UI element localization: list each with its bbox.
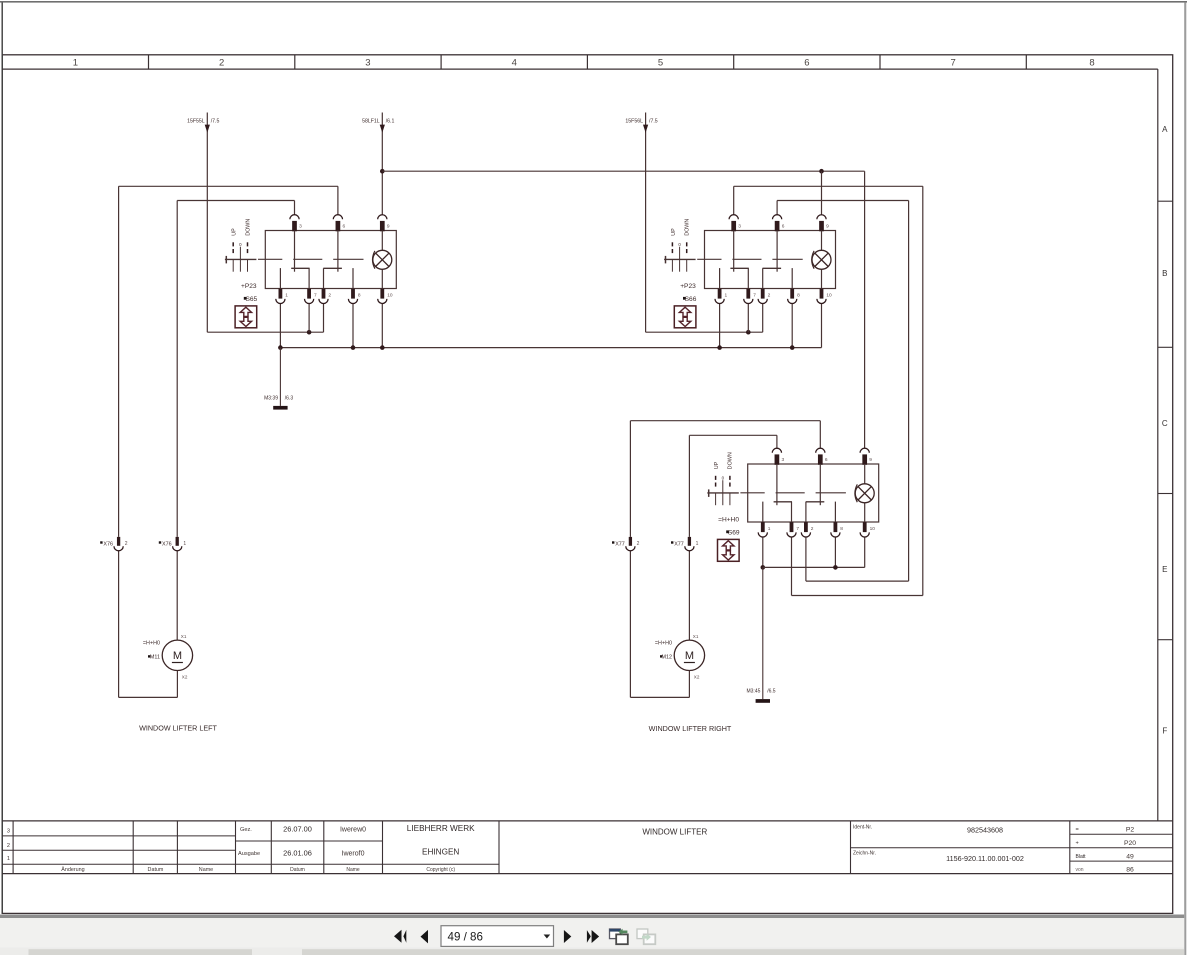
svg-text:9: 9: [826, 224, 829, 230]
wire S66 pin10 drop: [821, 304, 823, 348]
wire X77:2 vertical: [629, 421, 631, 537]
svg-text:X1: X1: [693, 634, 699, 639]
svg-text:Iwerew0: Iwerew0: [340, 827, 366, 834]
wire S65 pin10 drop: [381, 304, 383, 348]
switch S66 pin 9: [817, 215, 826, 232]
next view button disabled: [637, 929, 655, 944]
svg-text:7: 7: [951, 58, 956, 69]
switch S69 actuator lever: [707, 480, 739, 505]
junction bus at S65 pin8: [351, 345, 356, 350]
viewer top border: [0, 1, 1187, 3]
title block divider ident col: [1069, 821, 1071, 874]
svg-text:+P23: +P23: [680, 283, 696, 290]
page number combo box: [441, 926, 554, 947]
svg-text:1: 1: [768, 526, 771, 532]
wire S69 pin6 to X77:2 horizontal: [630, 420, 820, 422]
wire S69 pin7 drop: [791, 537, 793, 595]
wire S66 pin2 drop: [762, 304, 764, 333]
wire S66 pin3 horizontal to x923: [734, 185, 923, 187]
switch S66 pin 2: [758, 289, 767, 304]
wire S65 pin3 to X76:1 horizontal: [177, 200, 294, 202]
title block divider title col: [850, 821, 852, 874]
wire S69 pin2 horizontal: [806, 580, 909, 582]
wire X76:2 vertical: [118, 186, 120, 537]
row divider: [1158, 493, 1173, 495]
wire X76:1 vertical: [176, 201, 178, 537]
wire S65 pin3 stub: [294, 201, 296, 215]
connector X77:2 label: [612, 541, 640, 548]
svg-text:EHINGEN: EHINGEN: [422, 848, 459, 857]
wire X77:1 vertical: [688, 435, 690, 537]
switch S69 coupling dashes: [740, 492, 846, 494]
wire X76:1 to motor M11 X1: [176, 551, 178, 640]
svg-text:Zeichn-Nr.: Zeichn-Nr.: [853, 851, 876, 857]
svg-text:von: von: [1076, 867, 1084, 873]
wire 15F55L feed vertical: [206, 113, 208, 333]
wire S69 bottom bus: [763, 566, 865, 568]
wire S65 pin8 drop: [352, 304, 354, 348]
title block divider Name col: [235, 821, 237, 874]
switch S65 designator S65: [244, 296, 258, 303]
switch S65 pin 8: [348, 289, 357, 304]
title block row line ident/zeichn: [851, 847, 1070, 849]
wire S69 pin7 horizontal: [792, 595, 923, 597]
switch S66 position dashes: [672, 242, 686, 253]
svg-text:Iwerof0: Iwerof0: [342, 851, 365, 858]
row divider: [1158, 639, 1173, 641]
svg-text:S69: S69: [728, 530, 740, 537]
drawing frame left page edge: [1, 2, 3, 913]
junction S69 pin1: [761, 565, 766, 570]
wire S69 pin6 stub: [819, 421, 821, 449]
switch S69 contact pin3: [774, 464, 792, 522]
svg-text:Datum: Datum: [148, 867, 164, 873]
svg-text:49 / 86: 49 / 86: [448, 931, 483, 944]
title block divider date col: [323, 821, 325, 874]
svg-text:1: 1: [285, 292, 288, 298]
switch S66 contact pin6: [763, 231, 782, 289]
svg-text:6: 6: [825, 457, 828, 463]
svg-text:8: 8: [797, 292, 800, 298]
switch S65 pin8 stub: [352, 268, 354, 288]
wire S66 pin9 drop from lamp bus: [821, 171, 823, 215]
window lifter icon S69: [718, 539, 740, 561]
svg-text:UP: UP: [671, 228, 677, 236]
wire S65 pin7 drop: [308, 304, 310, 333]
svg-text:DOWN: DOWN: [728, 452, 734, 469]
wire motor M12 X2: [688, 671, 690, 698]
svg-text:WINDOW LIFTER RIGHT: WINDOW LIFTER RIGHT: [649, 724, 732, 733]
wire X76:2 to motor M11 leg: [118, 551, 120, 698]
svg-text:UP: UP: [714, 461, 720, 469]
svg-text:A: A: [1162, 125, 1168, 134]
wire S69 pin3 to X77:1 horizontal: [689, 434, 777, 436]
svg-text:2: 2: [328, 292, 331, 298]
svg-text:=H+H0: =H+H0: [718, 517, 739, 524]
switch S69 body: [748, 464, 879, 522]
svg-text:P20: P20: [1124, 840, 1136, 847]
switch S66 actuator lever: [664, 247, 696, 272]
switch S69 pin 10: [860, 522, 869, 537]
first page button: [394, 930, 406, 943]
lamp in switch S69: [855, 464, 874, 522]
switch S66 pin8 stub: [791, 268, 793, 288]
wire S66 pin7 drop: [747, 304, 749, 333]
svg-text:2: 2: [125, 541, 128, 547]
title block right table rows: [1070, 833, 1173, 835]
supply 58LF1L arrow: [380, 125, 385, 133]
column divider 4|5: [586, 55, 588, 69]
svg-text:/6.1: /6.1: [386, 119, 395, 125]
switch S65 body: [265, 231, 396, 289]
svg-text:1: 1: [73, 58, 78, 69]
switch S65 contact pin6: [323, 231, 342, 289]
switch S65 position dashes: [233, 242, 247, 253]
title block divider name2 col: [382, 821, 384, 874]
switch S69 pin 3: [772, 448, 781, 465]
svg-text:Name: Name: [346, 867, 360, 873]
switch S66 pin 8: [788, 289, 797, 304]
switch S69 pin 7: [787, 522, 796, 537]
wire common bus y347: [280, 347, 821, 349]
svg-text:15F55L: 15F55L: [187, 119, 205, 125]
svg-text:86: 86: [1126, 866, 1134, 873]
wire S66 pin6 horizontal to x909: [777, 200, 909, 202]
wire 15F55L feed horizontal to pins 7+2: [207, 331, 323, 333]
wire S65 pin6 stub: [337, 186, 339, 214]
svg-text:6: 6: [804, 58, 809, 69]
junction bus at S65 pin1: [278, 345, 283, 350]
switch S69 pin 1: [758, 522, 767, 537]
title block divider Aenderung col: [132, 821, 134, 874]
switch S65 pin1 stub: [279, 268, 281, 288]
switch S66 designator S66: [683, 296, 697, 303]
switch S66 pin1 stub: [719, 268, 721, 288]
svg-text:9: 9: [869, 457, 872, 463]
svg-text:M: M: [685, 650, 694, 662]
wire S65 pin2 drop: [323, 304, 325, 333]
switch S66 pin 1: [715, 289, 724, 304]
switch S65 pin 10: [378, 289, 387, 304]
svg-text:F: F: [1162, 727, 1167, 736]
wire S65 pin6 to X76:2 horizontal: [119, 185, 338, 187]
wire S66 pin1 drop: [719, 304, 721, 348]
svg-text:15F56L: 15F56L: [625, 119, 643, 125]
previous page button: [421, 930, 429, 944]
svg-text:S65: S65: [245, 296, 257, 303]
svg-text:M12: M12: [662, 655, 673, 661]
wire motor M12 bottom horizontal: [630, 696, 689, 698]
svg-text:3: 3: [365, 58, 370, 69]
svg-text:2: 2: [7, 843, 10, 849]
column divider 5|6: [733, 55, 735, 69]
svg-text:X77: X77: [674, 542, 684, 548]
wire S66 pin3 stub: [733, 186, 735, 214]
svg-text:M11: M11: [150, 655, 160, 661]
svg-text:+P23: +P23: [241, 283, 257, 290]
toolbar background: [0, 918, 1184, 947]
connector X76:2 label: [100, 541, 128, 548]
svg-text:WINDOW LIFTER LEFT: WINDOW LIFTER LEFT: [139, 723, 217, 732]
wire motor M11 bottom horizontal: [119, 696, 178, 698]
switch S66 pin 3: [729, 215, 738, 232]
wire S65 pin1 drop: [279, 304, 281, 348]
svg-text:E: E: [1162, 565, 1167, 574]
svg-text:8: 8: [358, 292, 361, 298]
title block divider Datum col: [176, 821, 178, 874]
junction 58LF1L branch: [380, 169, 385, 174]
wire x909 vertical: [908, 201, 910, 582]
terminal M3:39 wire: [279, 348, 281, 406]
switch S69 designator S69: [726, 530, 740, 537]
column divider 6|7: [879, 55, 881, 69]
switch S69 pin 2: [801, 522, 810, 537]
svg-text:LIEBHERR WERK: LIEBHERR WERK: [407, 824, 475, 833]
switch S65 pin 6: [333, 215, 342, 232]
wire S69 pin2 drop: [805, 537, 807, 581]
junction S65 pin7: [307, 330, 312, 335]
svg-text:X76: X76: [162, 542, 172, 548]
svg-text:Copyright (c): Copyright (c): [426, 867, 455, 873]
svg-text:=H+H0: =H+H0: [655, 641, 672, 647]
svg-text:1: 1: [725, 292, 728, 298]
connector X77:1 label: [671, 541, 699, 548]
connector X77:2: [626, 537, 635, 551]
wire 15F56L feed horizontal to S66 pins 7+2: [646, 331, 763, 333]
svg-text:10: 10: [870, 526, 876, 532]
svg-text:Ident-Nr.: Ident-Nr.: [853, 824, 872, 830]
junction bus at S65 pin10: [380, 345, 385, 350]
switch S65 pin 1: [276, 289, 285, 304]
terminal M3:39 bar: [273, 406, 287, 410]
svg-text:P2: P2: [1126, 827, 1135, 834]
wire x923 vertical: [922, 186, 924, 595]
motor M12 designator: [660, 655, 672, 661]
motor M11 designator: [148, 655, 160, 661]
supply 15F55L arrow: [205, 125, 210, 133]
switch S65 pin 7: [305, 289, 314, 304]
wire S66 pin8 drop: [791, 304, 793, 348]
viewer bottom border above toolbar: [0, 915, 1184, 919]
motor M11: [162, 640, 192, 670]
svg-text:/6.5: /6.5: [767, 689, 776, 695]
switch S69 pin 6: [816, 448, 825, 465]
next page button: [564, 930, 571, 943]
svg-text:2: 2: [637, 541, 640, 547]
status bar panel left: [29, 949, 253, 955]
svg-text:/7.5: /7.5: [211, 119, 220, 125]
svg-text:M3:39: M3:39: [264, 395, 278, 401]
svg-text:Datum: Datum: [290, 867, 305, 873]
wire S69 pin8 drop: [834, 537, 836, 567]
connector X76:2: [114, 537, 123, 551]
wire 15F56L feed vertical: [645, 113, 647, 333]
svg-text:9: 9: [387, 224, 390, 230]
svg-text:X2: X2: [694, 675, 700, 680]
switch S66 coupling dashes: [697, 258, 803, 260]
svg-text:+: +: [1076, 841, 1079, 847]
svg-text:10: 10: [826, 292, 832, 298]
svg-text:3: 3: [7, 829, 10, 835]
wire X77:1 to motor M12 X1: [688, 551, 690, 640]
wire S69 pin1 drop: [762, 537, 764, 567]
switch S66 contact pin3: [730, 231, 748, 289]
svg-text:6: 6: [343, 224, 346, 230]
svg-text:X76: X76: [103, 542, 113, 548]
svg-text:/7.5: /7.5: [649, 119, 658, 125]
switch S65 coupling dashes: [258, 258, 364, 260]
junction S66 pin7: [746, 330, 751, 335]
switch S69 pin1 stub: [762, 502, 764, 522]
svg-text:7: 7: [753, 292, 756, 298]
title block row line rev1: [2, 863, 499, 865]
svg-text:1: 1: [696, 541, 699, 547]
switch S69 pin 9: [860, 448, 869, 465]
column divider 2|3: [294, 55, 296, 69]
svg-text:WINDOW LIFTER: WINDOW LIFTER: [642, 828, 707, 837]
svg-text:1156-920.11.00.001-002: 1156-920.11.00.001-002: [946, 854, 1024, 863]
switch S66 pin 10: [817, 289, 826, 304]
svg-text:49: 49: [1126, 853, 1134, 860]
svg-text:6: 6: [782, 224, 785, 230]
switch S66 pin 7: [744, 289, 753, 304]
junction bus at S66 pin1: [717, 345, 722, 350]
wire lamp bus drop to S69 pin9: [864, 171, 866, 448]
svg-text:DOWN: DOWN: [245, 219, 251, 236]
terminal M3:45 wire: [762, 567, 764, 699]
svg-text:8: 8: [1089, 58, 1094, 69]
wire S69 pin3 stub: [776, 435, 778, 448]
switch S69 position dashes: [716, 476, 730, 487]
title block divider Liebherr col: [498, 821, 500, 874]
svg-text:Ausgabe: Ausgabe: [238, 851, 260, 857]
svg-text:26.07.00: 26.07.00: [283, 825, 312, 834]
svg-text:Gez.: Gez.: [240, 827, 252, 833]
switch S65 actuator lever: [225, 247, 257, 272]
connector X76:1: [173, 537, 182, 551]
svg-text:5: 5: [658, 58, 663, 69]
svg-text:/6.3: /6.3: [285, 395, 294, 401]
connector X77:1: [685, 537, 694, 551]
svg-text:S66: S66: [685, 296, 697, 303]
svg-text:B: B: [1162, 269, 1167, 278]
svg-text:4: 4: [512, 58, 517, 69]
junction bus at S66 pin8: [790, 345, 795, 350]
title block row line gez/ausgabe: [236, 840, 383, 842]
svg-text:2: 2: [811, 526, 814, 532]
title block divider rev-num col: [12, 821, 14, 874]
motor M12: [674, 640, 704, 670]
connector X76:1 label: [159, 541, 187, 548]
svg-text:X1: X1: [181, 634, 187, 639]
svg-text:M: M: [173, 650, 182, 662]
title block top border: [2, 820, 1173, 822]
wire S66 pin6 stub: [776, 201, 778, 215]
column divider 1|2: [148, 55, 150, 69]
status bar background: [0, 947, 1184, 955]
svg-text:X2: X2: [182, 675, 188, 680]
switch S65 pin 3: [290, 215, 299, 232]
switch S69 contact pin6: [806, 464, 825, 522]
svg-text:7: 7: [314, 292, 317, 298]
svg-text:10: 10: [387, 292, 393, 298]
window lifter icon S66: [674, 306, 696, 328]
lamp in switch S65: [373, 231, 392, 289]
wire lamp bus horizontal: [382, 170, 864, 172]
svg-text:Blatt: Blatt: [1076, 854, 1087, 860]
svg-text:1: 1: [183, 541, 186, 547]
svg-text:=: =: [1076, 827, 1079, 833]
last page button: [587, 930, 599, 943]
column divider 3|4: [440, 55, 442, 69]
svg-text:26.01.06: 26.01.06: [283, 849, 312, 858]
window lifter icon S65: [235, 306, 257, 328]
title block row line rev3: [2, 835, 235, 837]
wire motor M11 X2: [176, 671, 178, 698]
title block row line rev2: [2, 849, 235, 851]
column header band line: [2, 68, 1158, 70]
svg-text:Änderung: Änderung: [61, 866, 84, 873]
supply 15F56L arrow: [643, 125, 648, 133]
switch S69 pin8 stub: [834, 502, 836, 522]
viewer right border: [1184, 2, 1186, 955]
svg-text:2: 2: [219, 58, 224, 69]
switch S65 pin 9: [378, 215, 387, 232]
junction S69 pin8: [833, 565, 838, 570]
svg-text:Name: Name: [199, 867, 213, 873]
status bar panel right: [302, 949, 1184, 955]
title block bottom border: [2, 873, 1173, 875]
lamp in switch S66: [812, 231, 831, 289]
switch S66 pin 6: [773, 215, 782, 232]
switch S69 pin 8: [831, 522, 840, 537]
switch S65 pin 2: [319, 289, 328, 304]
column divider 7|8: [1025, 55, 1027, 69]
row divider: [1158, 200, 1173, 202]
svg-text:3: 3: [738, 224, 741, 230]
svg-text:3: 3: [782, 457, 785, 463]
terminal M3:45 bar: [756, 699, 770, 703]
svg-text:8: 8: [840, 526, 843, 532]
previous view button: [610, 929, 628, 945]
svg-text:982543608: 982543608: [967, 826, 1003, 835]
svg-text:X77: X77: [615, 542, 625, 548]
svg-text:M3:45: M3:45: [746, 689, 760, 695]
svg-text:DOWN: DOWN: [685, 219, 691, 236]
svg-text:1: 1: [7, 856, 10, 862]
title block divider Gez col: [270, 821, 272, 874]
svg-text:=H+H0: =H+H0: [143, 641, 160, 647]
svg-text:58LF1L: 58LF1L: [362, 119, 380, 125]
svg-text:7: 7: [796, 526, 799, 532]
svg-text:C: C: [1162, 419, 1168, 428]
svg-text:2: 2: [768, 292, 771, 298]
row divider: [1158, 346, 1173, 348]
switch S65 contact pin3: [291, 231, 309, 289]
svg-text:3: 3: [299, 224, 302, 230]
wire S69 pin10 drop: [864, 537, 866, 567]
junction lamp bus at S66 pin9: [819, 169, 824, 174]
switch S66 body: [705, 231, 836, 289]
row letter column line: [1157, 69, 1159, 821]
wire X77:2 to motor M12 leg: [629, 551, 631, 698]
wire 58LF1L feed to S65 pin9: [381, 113, 383, 215]
svg-text:UP: UP: [232, 228, 238, 236]
